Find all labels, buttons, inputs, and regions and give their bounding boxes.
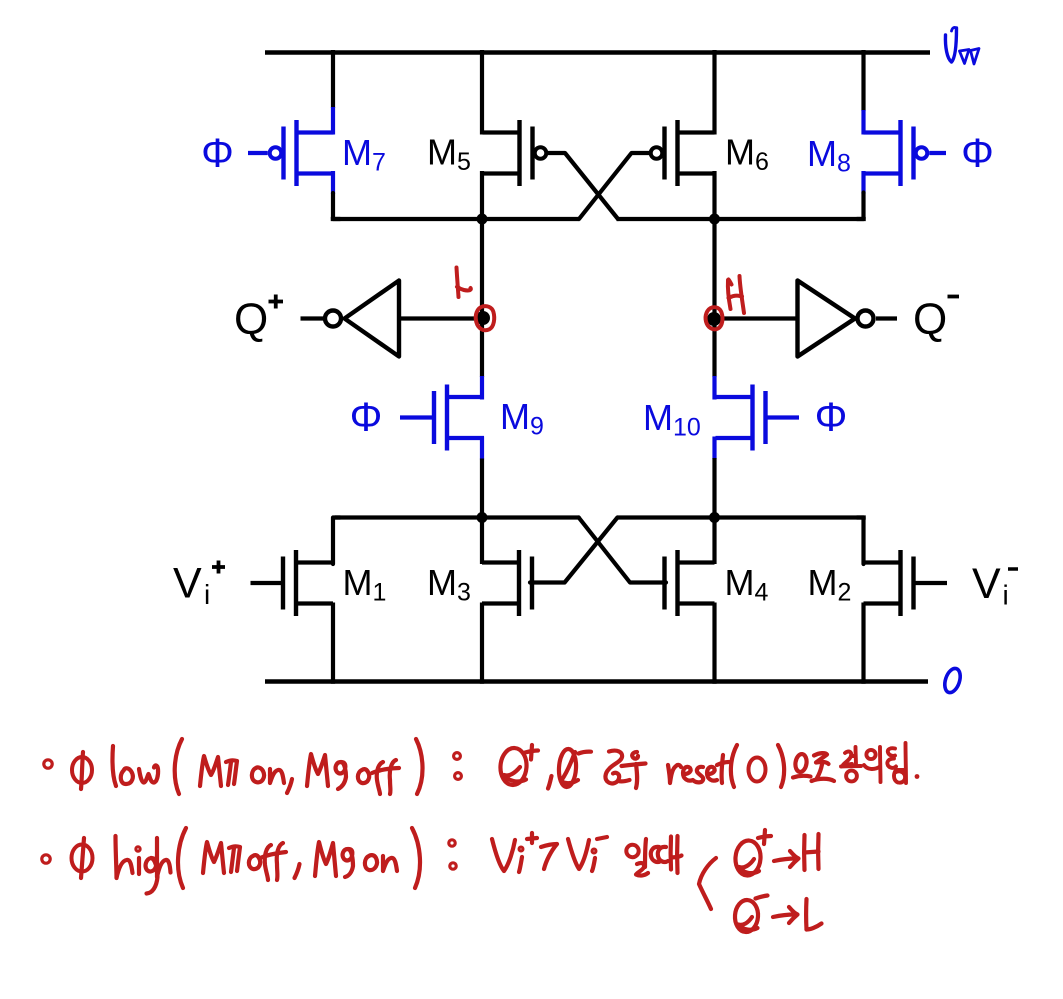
node Qbb (right latch output) [707, 312, 721, 326]
wire [400, 316, 482, 320]
handwritten word high [116, 836, 133, 878]
wire [712, 50, 716, 135]
wire [549, 153, 619, 219]
svg-text:M1: M1 [343, 562, 387, 607]
wire [712, 318, 716, 377]
svg-text:V: V [173, 560, 202, 608]
handwritten Q- 1 [558, 749, 577, 788]
svg-text:M4: M4 [725, 562, 769, 607]
handwritten phi 2 [72, 845, 93, 872]
annotation H (red, right output) [728, 280, 731, 309]
wire [480, 603, 484, 684]
svg-text:Q: Q [234, 295, 268, 344]
handwritten Q+ 1 [499, 747, 528, 786]
handwritten bullet 2 [42, 855, 50, 863]
wire [712, 603, 716, 684]
label 0 (handwritten, ground) [942, 666, 963, 694]
transistor M5 [483, 120, 549, 186]
svg-text:Φ: Φ [961, 130, 994, 176]
wire [480, 171, 484, 221]
inverter U1 (output Q+) [301, 281, 400, 357]
handwritten Q- -> L [734, 899, 759, 933]
wire [331, 50, 335, 108]
node Qb (left latch output) [476, 311, 490, 325]
wire [480, 219, 484, 320]
transistor M6 [649, 120, 715, 186]
label VDD (handwritten) [945, 28, 956, 62]
wire [480, 518, 484, 565]
svg-text:M3: M3 [427, 562, 471, 607]
transistor M8 [864, 120, 947, 186]
handwritten off 1 [358, 769, 369, 783]
svg-text:M9: M9 [500, 396, 544, 441]
transistor M1 [251, 550, 334, 616]
svg-text:Φ: Φ [815, 394, 848, 440]
transistor M2 [864, 550, 948, 616]
handwritten colon 1 [454, 753, 461, 760]
handwritten Korean modu [605, 751, 622, 784]
transistor M3 [482, 550, 532, 616]
svg-text:M5: M5 [427, 132, 471, 177]
wire [617, 217, 866, 221]
svg-text:Φ: Φ [201, 130, 234, 176]
svg-text:M7: M7 [342, 132, 386, 177]
transistor M10 [716, 385, 800, 451]
wire [331, 217, 580, 221]
wire [579, 518, 666, 583]
node Y (drains of M6/M8) [709, 214, 720, 225]
handwritten Korean ilttae [626, 845, 638, 857]
wire [712, 437, 716, 460]
VDD rail [265, 50, 930, 55]
handwritten Vi+ 2 [492, 839, 515, 871]
svg-text:i: i [1003, 580, 1009, 611]
handwritten M9 1 [307, 754, 328, 786]
handwritten Korean euro [794, 753, 807, 772]
wire [617, 515, 865, 519]
handwritten (0) [731, 745, 737, 787]
wire [480, 50, 484, 135]
handwritten word low [112, 746, 116, 786]
transistor M9 [400, 385, 484, 451]
handwritten M9 2 [315, 842, 336, 876]
handwritten on 2 [365, 855, 377, 870]
wire [861, 50, 865, 111]
wire [861, 171, 865, 194]
svg-text:Q: Q [913, 295, 947, 344]
ground rail [265, 679, 928, 684]
wire [331, 603, 335, 684]
annotation circle (red, left output) [476, 306, 494, 330]
plus sign of Q+ [269, 300, 284, 304]
svg-text:M8: M8 [807, 133, 851, 178]
handwritten Korean jeonguidoem [843, 752, 852, 765]
wire [712, 171, 716, 221]
handwritten comma 1 [287, 779, 292, 793]
transistor M4 [665, 550, 715, 616]
node R (drains of M2/M4) [709, 512, 720, 523]
svg-text:i: i [204, 579, 210, 610]
wire [331, 171, 335, 194]
handwritten colon 2 [449, 840, 455, 846]
handwritten Vi- 2 [568, 839, 589, 869]
handwritten brace [699, 858, 716, 909]
handwritten paren ) 1 [416, 739, 423, 794]
wire [480, 318, 484, 377]
handwritten off 2 [249, 855, 260, 869]
wire [712, 219, 716, 320]
svg-text:M2: M2 [808, 562, 852, 607]
handwritten comma 3 [295, 864, 300, 878]
minus sign of Q- [948, 295, 960, 299]
handwritten paren ) 2 [412, 828, 420, 888]
minus sign of Vi- [1008, 567, 1018, 571]
svg-text:M6: M6 [725, 132, 769, 177]
svg-text:Φ: Φ [350, 394, 383, 440]
annotation circle (red, right output) [706, 307, 723, 329]
handwritten bullet 1 [44, 760, 52, 768]
svg-text:M10: M10 [643, 397, 701, 442]
handwritten comma 2 [548, 776, 552, 789]
handwritten M7 2 [203, 842, 224, 873]
handwritten M7 1 [200, 756, 221, 786]
handwritten paren ( 2 [178, 828, 186, 888]
inverter U2 (output Q-) [798, 281, 898, 357]
plus sign of Vi+ [212, 565, 225, 569]
wire [712, 518, 716, 565]
wire [333, 518, 340, 565]
wire [579, 153, 649, 219]
annotation L (red, left output) [457, 268, 459, 298]
handwritten paren ( [175, 739, 182, 794]
node X (drains of M5/M7) [477, 214, 488, 225]
wire [715, 316, 799, 320]
transistor M7 [248, 120, 334, 186]
wire [335, 515, 578, 519]
handwritten phi 1 [72, 757, 92, 783]
wire [480, 437, 484, 460]
handwritten Q+ -> H [734, 840, 761, 877]
wire [861, 603, 865, 684]
handwritten greater-than [541, 844, 557, 869]
wire [857, 518, 864, 565]
wire [530, 518, 617, 583]
svg-text:V: V [972, 560, 1001, 608]
node P (drains of M1/M3) [477, 512, 488, 523]
handwritten on 1 [252, 767, 264, 782]
handwritten reset [668, 765, 681, 783]
